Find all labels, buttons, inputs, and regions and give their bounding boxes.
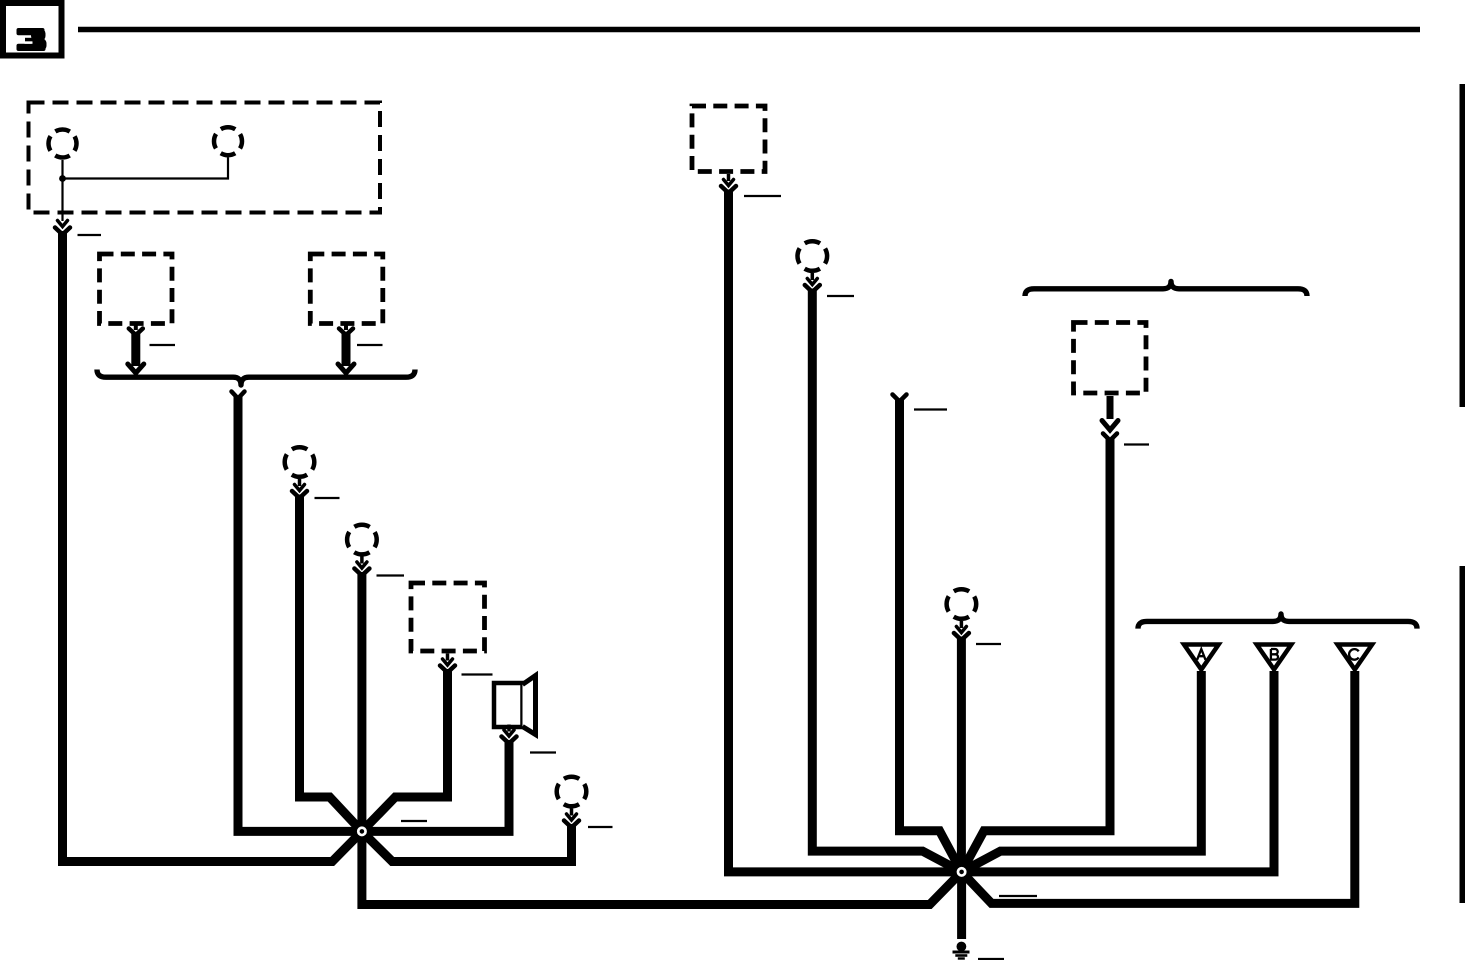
connector circle (dashed) above right splice xyxy=(947,589,977,619)
destination triangle C xyxy=(1338,645,1373,670)
ground label xyxy=(978,958,1004,960)
wire from circle down to right splice (north arm) xyxy=(957,637,966,872)
wire from mid-right box to right splice (northeast diagonal arm) xyxy=(962,438,1110,872)
wire from circle to left splice (lower-right diagonal arm) xyxy=(362,824,572,862)
wire from circle to right splice (west-northwest arm) xyxy=(812,289,961,872)
speaker xyxy=(494,676,536,735)
wire right splice to triangle C (southeast diagonal arm) xyxy=(962,671,1355,903)
stub label A xyxy=(150,344,176,346)
terminal circle inside box right xyxy=(214,127,242,155)
connector arrow below top-left box xyxy=(55,221,70,235)
label xyxy=(744,195,781,197)
wire right splice to triangle B (east arm) xyxy=(962,671,1274,872)
internal wire from left terminal xyxy=(61,160,63,221)
internal wire branch to right terminal xyxy=(63,158,229,179)
label xyxy=(588,826,613,828)
header rule xyxy=(78,27,1420,33)
junction dot inside box xyxy=(59,175,66,182)
wire right splice to ground (south arm) xyxy=(957,872,966,939)
label xyxy=(914,408,947,410)
destination triangle A xyxy=(1184,645,1219,670)
terminal circle inside box left xyxy=(49,130,77,158)
wire start chevron xyxy=(893,395,907,402)
label xyxy=(377,574,405,576)
label xyxy=(315,497,340,499)
wire from top-left box to left splice (lower-left arm) xyxy=(63,231,362,862)
connector circle (dashed) upper middle xyxy=(798,241,828,271)
wire down to right splice (northwest diagonal arm) xyxy=(900,399,962,872)
wire from speaker to left splice (east arm) xyxy=(362,740,509,831)
component box (dashed) row-2 A xyxy=(100,254,173,324)
destination triangle B xyxy=(1257,645,1292,670)
wire from box to left splice (upper-right diagonal arm) xyxy=(362,669,448,831)
label xyxy=(827,295,854,297)
connector circle (dashed) below speaker xyxy=(557,777,587,807)
right splice node xyxy=(954,865,969,880)
wire from left splice down and across to right splice xyxy=(362,831,962,904)
component box (dashed) mid-right xyxy=(1074,323,1147,394)
connector arrow below mid-right box xyxy=(1102,396,1118,441)
connector circle (dashed) mid-left upper xyxy=(285,447,315,477)
wire from circle straight down to left splice (north arm) xyxy=(357,572,366,831)
wire from top-middle box to right splice (west arm) xyxy=(729,190,962,872)
component box (dashed) mid xyxy=(411,583,485,651)
left splice node xyxy=(355,824,370,839)
component box (dashed) row-2 B xyxy=(310,254,383,324)
page-edge bar lower xyxy=(1460,566,1465,903)
wire from brace to left splice (west arm) xyxy=(232,392,245,399)
connector circle (dashed) mid-left lower xyxy=(347,525,377,555)
brace over mid-right box xyxy=(1025,281,1307,296)
label xyxy=(1124,443,1149,445)
page number box xyxy=(3,3,62,56)
component box (dashed) top-left xyxy=(29,103,381,213)
ground xyxy=(953,942,970,959)
wire right splice to triangle A (east-northeast arm) xyxy=(962,671,1202,872)
brace gathering boxes A/B xyxy=(97,370,415,386)
stub label B xyxy=(357,344,383,346)
brace over triangles A B C xyxy=(1138,614,1417,629)
left splice label xyxy=(401,820,427,822)
right splice label xyxy=(999,895,1037,897)
label xyxy=(530,751,556,753)
connector stub below box B xyxy=(338,325,354,374)
label xyxy=(976,643,1001,645)
label xyxy=(462,673,493,675)
wire from circle to left splice (upper-left diagonal arm) xyxy=(300,495,362,832)
wire label xyxy=(78,234,102,236)
page-edge bar upper xyxy=(1460,84,1465,407)
connector stub below box A xyxy=(128,325,144,374)
component box (dashed) top-middle xyxy=(692,106,765,172)
